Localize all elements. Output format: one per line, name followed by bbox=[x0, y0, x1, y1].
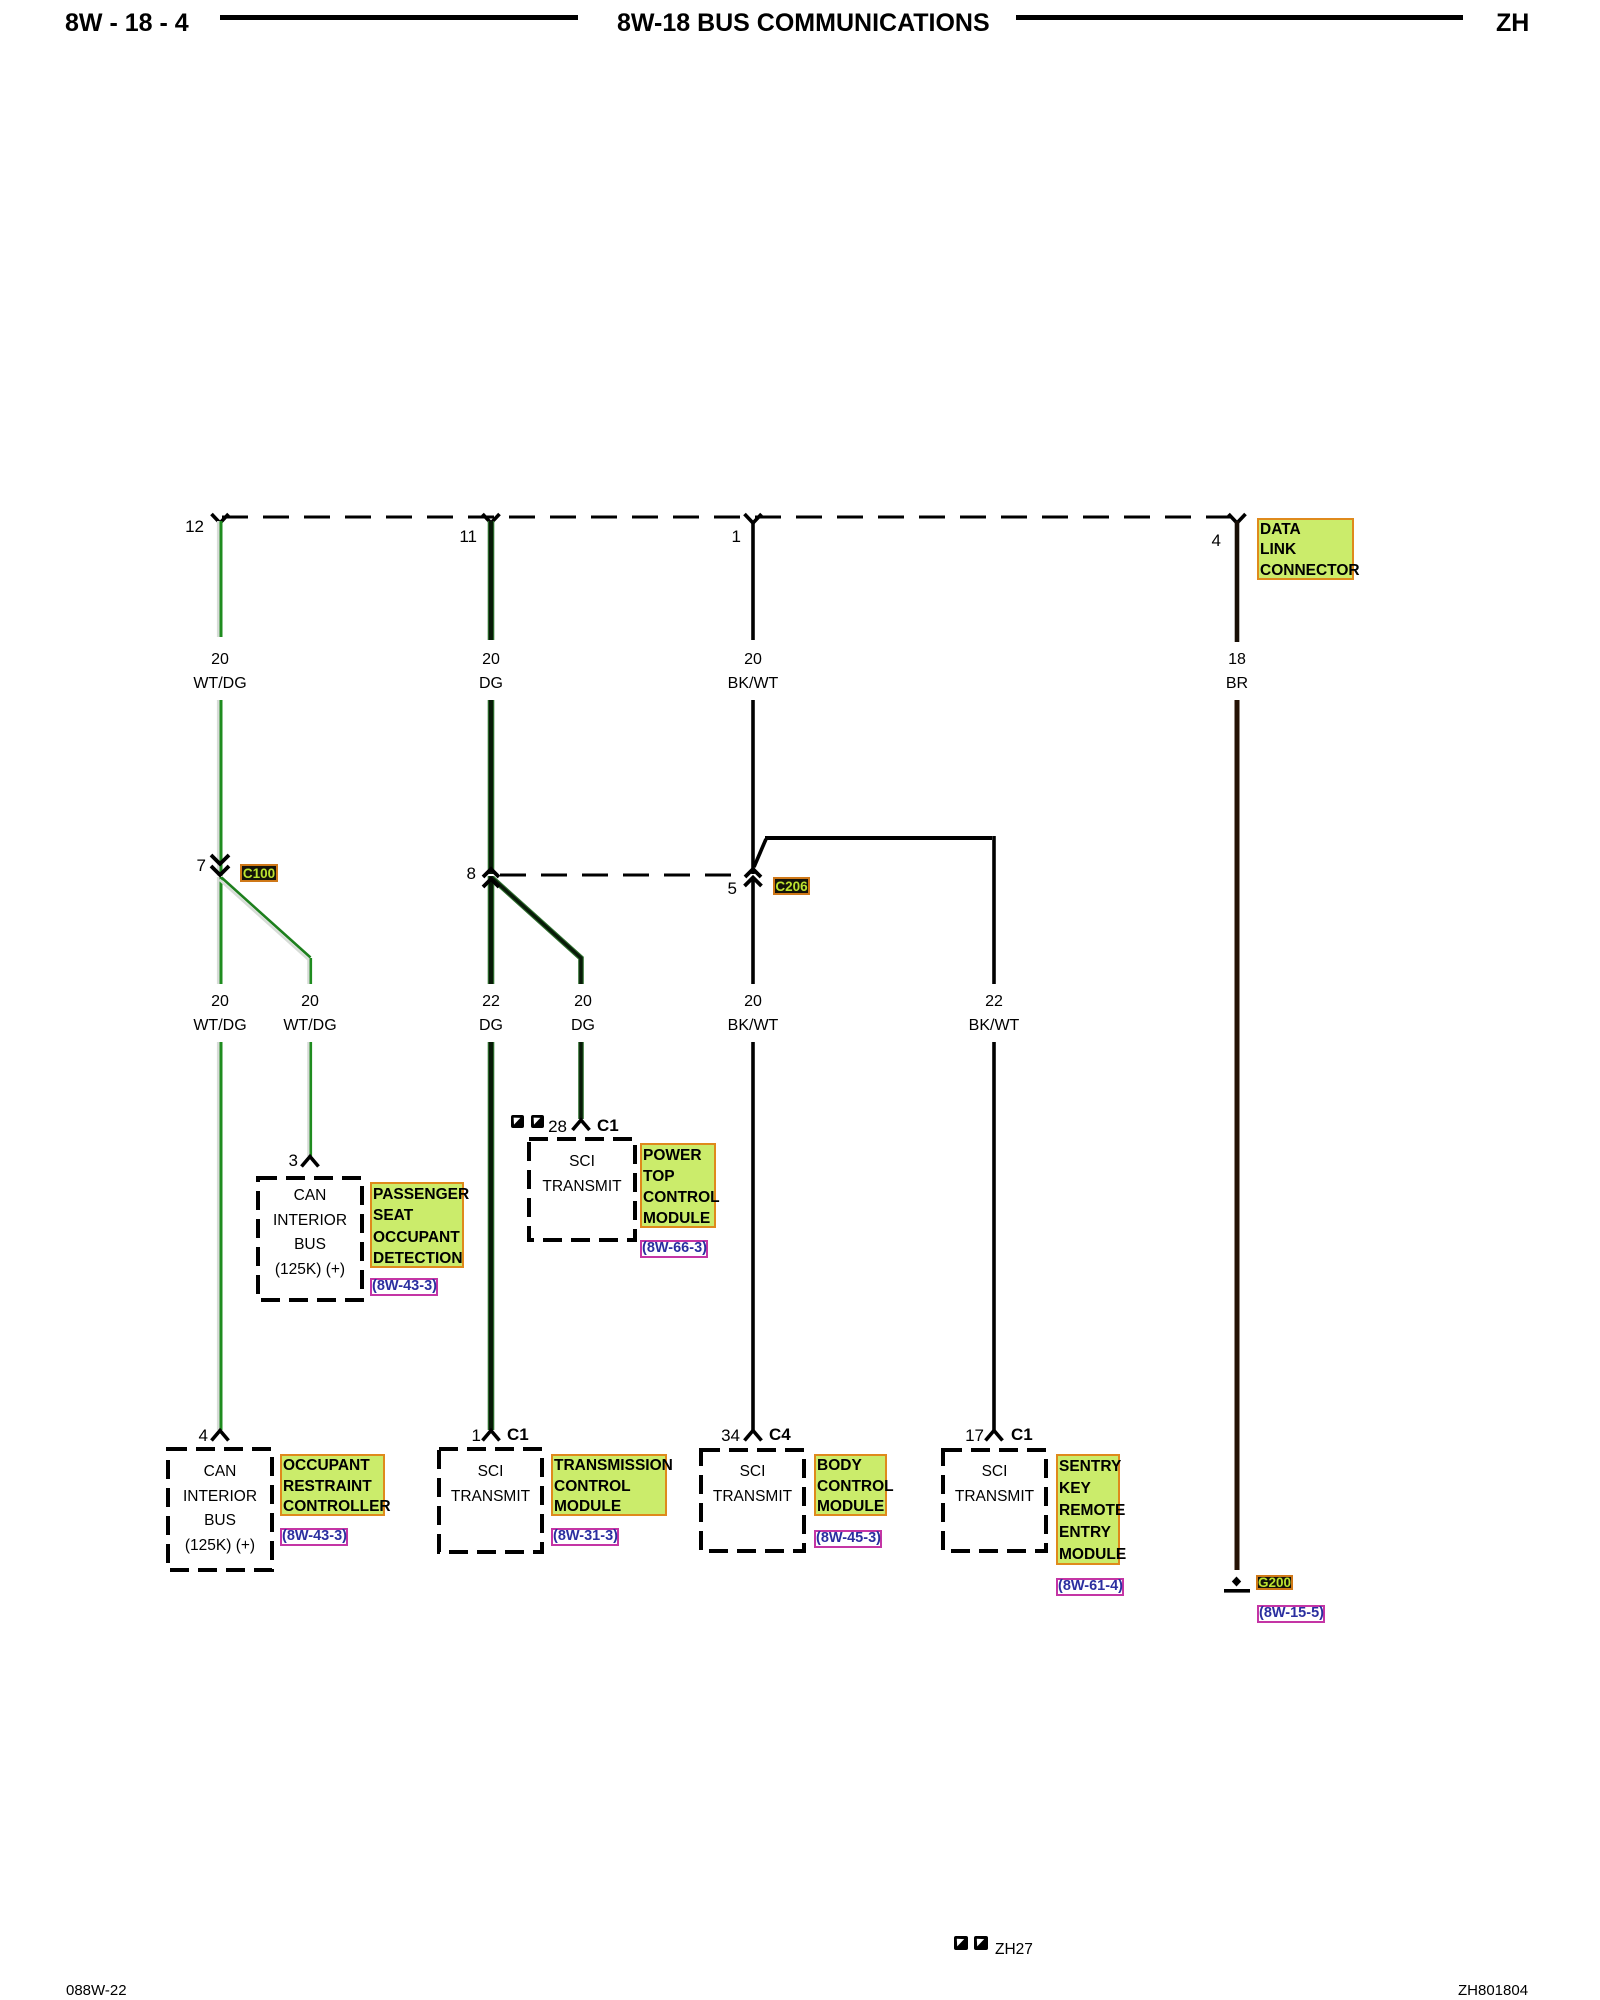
link 8W-31-3 (TCM) bbox=[551, 1528, 619, 1546]
ground G200 symbol bar bbox=[1224, 1589, 1250, 1593]
pin 1 label (TCM) bbox=[451, 1427, 481, 1444]
wire W2a 22 DG below node 8 (green edge) bbox=[488, 876, 495, 984]
wire W3 20 BK/WT mid segment bbox=[751, 700, 755, 874]
wire W2a 22 DG below node 8 bbox=[489, 876, 493, 984]
wire W2a 22 DG lower segment to TCM (green edge) bbox=[488, 1042, 495, 1430]
pin 5 label bbox=[707, 880, 737, 897]
wire W1b gauge label 20 WT/DG bbox=[250, 990, 370, 1038]
hyperlink icon 2 at PTCM pin 28 bbox=[531, 1115, 544, 1128]
wire W2b 20 DG lower segment to PTCM (green edge) bbox=[578, 1042, 584, 1119]
wire W3b 22 BK/WT vertical above label bbox=[992, 836, 996, 984]
header title bbox=[617, 9, 983, 38]
pin 4 label (ORC) bbox=[178, 1427, 208, 1444]
wire W2 20 DG mid segment (green edge) bbox=[488, 700, 495, 874]
pin 1 label bbox=[711, 528, 741, 545]
data link connector bus (dashed) bbox=[222, 516, 1237, 519]
node SENTRY KEY REMOTE ENTRY MODULE label bbox=[1056, 1454, 1120, 1565]
node BODY CONTROL MODULE label bbox=[814, 1454, 887, 1516]
wire W1a gauge label 20 WT/DG bbox=[160, 990, 280, 1038]
link 8W-43-3 (PSOD) bbox=[370, 1278, 438, 1296]
wire W4 18 BR long run to G200 bbox=[1235, 700, 1240, 1570]
footer right drawing number bbox=[1458, 1982, 1528, 1999]
link 8W-61-4 (SKREEM) bbox=[1056, 1578, 1124, 1596]
node OCCUPANT RESTRAINT CONTROLLER label bbox=[280, 1454, 385, 1516]
pin 17 label (SKREEM) bbox=[954, 1427, 984, 1444]
wire W4 gauge label 18 BR bbox=[1177, 648, 1297, 696]
wire W2b 20 DG lower segment to PTCM bbox=[579, 1042, 582, 1119]
wire W3b branch riser to horizontal bbox=[754, 839, 766, 867]
BCM pin 34 Y-connector bbox=[745, 1431, 762, 1441]
connector C206 label bbox=[773, 877, 810, 895]
wire W2 gauge label 20 DG bbox=[431, 648, 551, 696]
pin 3 label bbox=[268, 1152, 298, 1169]
wire W2 20 DG upper segment (green edge) bbox=[488, 521, 495, 640]
connector C100 label bbox=[240, 864, 278, 882]
PSOD component dashed box bbox=[258, 1178, 362, 1300]
wire W2 20 DG mid segment bbox=[489, 700, 493, 874]
wire W3b 22 BK/WT lower segment to SKREEM bbox=[992, 1042, 996, 1430]
header right code bbox=[1496, 9, 1529, 38]
wire W1a 20 WT/DG below C100 bbox=[217, 877, 220, 984]
wire W1a 20 WT/DG lower segment to ORC bbox=[217, 1042, 220, 1430]
connector C100 chevrons bbox=[211, 855, 229, 875]
wire W1b 20 WT/DG vertical above label bbox=[307, 958, 310, 984]
dashed bus segment node 8 to node 5 bbox=[500, 874, 744, 877]
ORC component dashed box bbox=[168, 1449, 272, 1570]
pin 28 label bbox=[537, 1118, 567, 1135]
connector C4 label (BCM) bbox=[769, 1426, 791, 1443]
footer ZH27 label bbox=[995, 1941, 1033, 1959]
hyperlink icon 2 at ZH27 bbox=[974, 1936, 988, 1950]
wire W2b 20 DG branch diagonal bbox=[492, 878, 581, 984]
DLC pin 11 Y-connector bbox=[483, 514, 500, 523]
wire W3b gauge label 22 BK/WT bbox=[934, 990, 1054, 1038]
hyperlink icon 1 at PTCM pin 28 bbox=[511, 1115, 524, 1128]
wire W3a gauge label 20 BK/WT bbox=[693, 990, 813, 1038]
pin 4 label (DLC) bbox=[1191, 532, 1221, 549]
wire W1 gauge label 20 WT/DG bbox=[160, 648, 280, 696]
node 8 chevrons bbox=[483, 869, 499, 887]
ground G200 label bbox=[1256, 1575, 1293, 1590]
link 8W-45-3 (BCM) bbox=[814, 1530, 882, 1548]
node PSOD box text bbox=[258, 1184, 362, 1282]
wire W2 20 DG upper segment bbox=[489, 521, 493, 640]
pin 8 label bbox=[446, 865, 476, 882]
node TCM box text bbox=[439, 1460, 542, 1509]
PTCM pin 28 Y-connector bbox=[573, 1120, 590, 1130]
node BCM box text bbox=[701, 1460, 804, 1509]
TCM pin 1 Y-connector bbox=[483, 1431, 500, 1441]
hyperlink icon 1 at ZH27 bbox=[954, 1936, 968, 1950]
wire W2a 22 DG lower segment to TCM bbox=[489, 1042, 493, 1430]
node ORC box text bbox=[168, 1460, 272, 1558]
header rule left bbox=[220, 15, 578, 20]
wire W3a 20 BK/WT below C206 bbox=[751, 879, 755, 984]
node PASSENGER SEAT OCCUPANT DETECTION label bbox=[370, 1182, 464, 1268]
SKREEM pin 17 Y-connector bbox=[986, 1431, 1003, 1441]
connector C1 label (TCM) bbox=[507, 1426, 529, 1443]
pin 34 label (BCM) bbox=[710, 1427, 740, 1444]
BCM SCI TRANSMIT dashed box bbox=[701, 1450, 804, 1551]
link 8W-15-5 (G200) bbox=[1257, 1605, 1325, 1623]
footer left sheet number bbox=[66, 1982, 127, 1999]
node 5 / C206 chevrons bbox=[745, 869, 762, 886]
link 8W-66-3 (PTCM) bbox=[640, 1240, 708, 1258]
TCM SCI TRANSMIT dashed box bbox=[439, 1449, 542, 1552]
header rule right bbox=[1016, 15, 1463, 20]
wire W1b 20 WT/DG lower segment to PSOD bbox=[307, 1042, 310, 1156]
wire W2b 20 DG branch diagonal (green edge) bbox=[492, 878, 581, 984]
link 8W-43-3 (ORC) bbox=[280, 1528, 348, 1546]
wire W2a gauge label 22 DG bbox=[431, 990, 551, 1038]
wire W1b branch diagonal from C100 bbox=[220, 880, 309, 960]
ORC pin 4 Y-connector bbox=[212, 1431, 229, 1441]
node DATA LINK CONNECTOR label bbox=[1257, 518, 1354, 580]
wire W3a 20 BK/WT lower segment to BCM bbox=[751, 1042, 755, 1430]
wire W3b horizontal run to SKREEM drop bbox=[765, 836, 992, 840]
wire W3 gauge label 20 BK/WT bbox=[693, 648, 813, 696]
node PTCM box text bbox=[529, 1150, 635, 1199]
pin 7 label bbox=[176, 857, 206, 874]
PSOD pin 3 Y-connector bbox=[302, 1157, 319, 1167]
DLC pin 4 Y-connector bbox=[1229, 514, 1246, 523]
ground G200 symbol diamond bbox=[1232, 1577, 1241, 1587]
connector C1 label (PTCM) bbox=[597, 1117, 619, 1134]
wire W1 20 WT/DG mid segment to C100 bbox=[217, 700, 220, 876]
wire W4 18 BR upper segment bbox=[1235, 521, 1240, 642]
SKREEM SCI TRANSMIT dashed box bbox=[943, 1450, 1046, 1551]
DLC pin 12 Y-connector bbox=[212, 514, 229, 523]
header left page number bbox=[65, 9, 189, 38]
node SKREEM box text bbox=[943, 1460, 1046, 1509]
wire W2b gauge label 20 DG bbox=[523, 990, 643, 1038]
connector C1 label (SKREEM) bbox=[1011, 1426, 1033, 1443]
PTCM SCI TRANSMIT dashed box bbox=[529, 1139, 635, 1240]
node POWER TOP CONTROL MODULE label bbox=[640, 1143, 716, 1228]
pin 12 label bbox=[174, 518, 204, 535]
wire W1 20 WT/DG upper segment bbox=[217, 521, 220, 637]
node TRANSMISSION CONTROL MODULE label bbox=[551, 1454, 667, 1516]
DLC pin 1 Y-connector bbox=[745, 514, 762, 523]
pin 11 label bbox=[447, 528, 477, 545]
wire W3 20 BK/WT upper segment bbox=[751, 521, 755, 640]
